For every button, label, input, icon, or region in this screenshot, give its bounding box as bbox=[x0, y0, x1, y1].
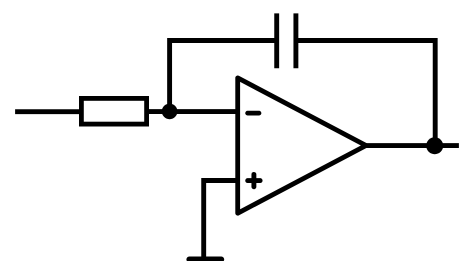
wire: non-inverting input down to ground bbox=[204, 181, 239, 259]
op-amp U1 bbox=[238, 78, 366, 213]
wire: resistor to node bbox=[147, 109, 170, 114]
node: output junction bbox=[426, 137, 443, 154]
wire: capacitor to output node (feedback) bbox=[298, 41, 435, 147]
wire: node to op-amp inverting input bbox=[170, 109, 239, 114]
wire: input lead bbox=[15, 109, 81, 114]
label: minus (inverting input) bbox=[248, 111, 259, 116]
wire: node up and across to capacitor bbox=[170, 41, 275, 116]
wire: op-amp output lead bbox=[366, 143, 459, 148]
capacitor C1 bbox=[277, 13, 296, 68]
node: junction at inverting input bbox=[162, 104, 178, 120]
ground bbox=[189, 256, 221, 261]
resistor R1 bbox=[81, 98, 146, 124]
label: plus (non-inverting input) bbox=[248, 174, 260, 186]
